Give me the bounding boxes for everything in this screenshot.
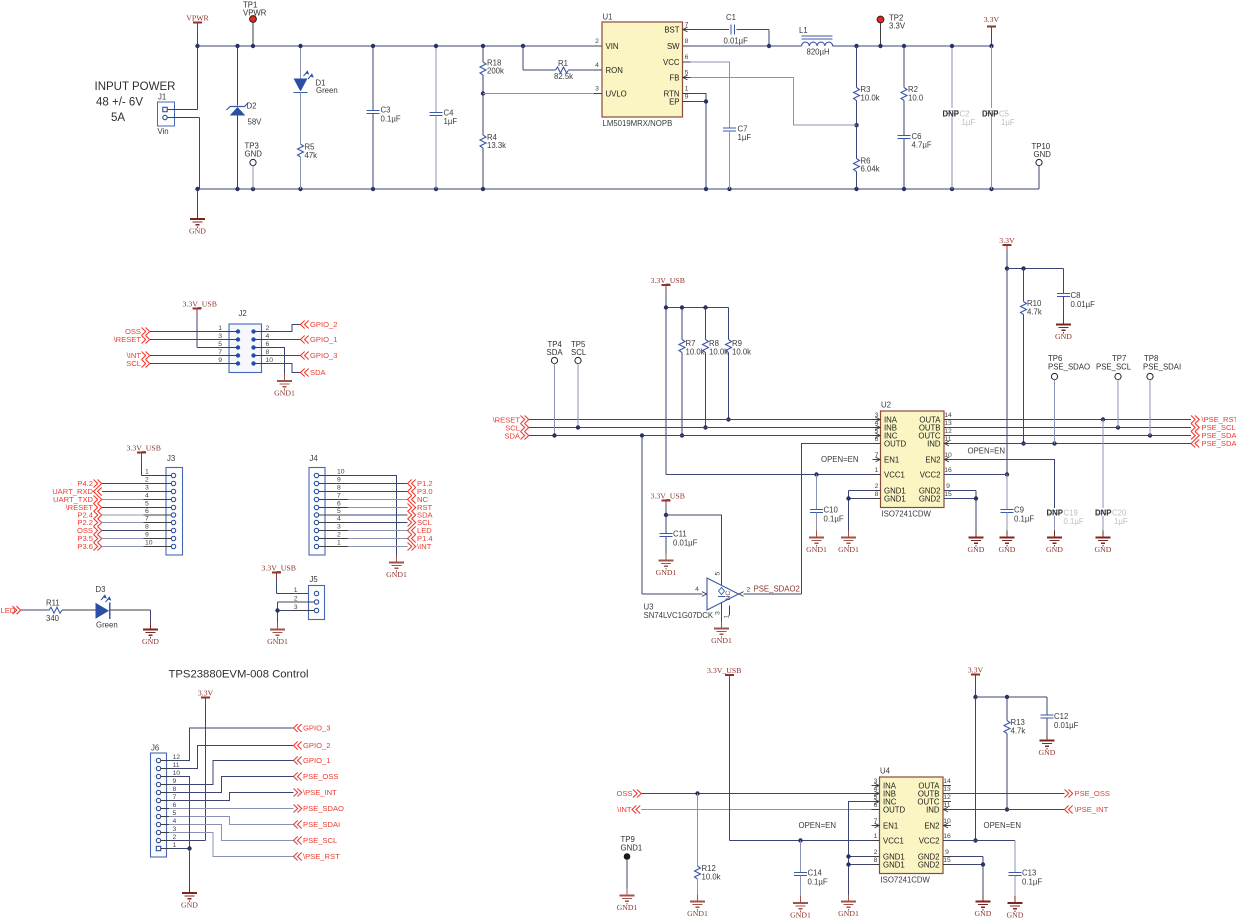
svg-text:GND: GND [975,909,992,918]
net PSE_SDAO input to IND [952,439,1236,448]
text OPEN=EN at U2 EN2 [968,447,1005,456]
LED D3 Green [96,585,118,630]
wire J6 pin8 to PSE_OSS [169,777,294,793]
svg-text:EN1: EN1 [883,821,898,830]
power flag VPWR [186,14,209,47]
wire SDA drop to U3 input [640,433,703,594]
svg-text:3.3V_USB: 3.3V_USB [651,492,685,501]
svg-text:9: 9 [218,357,222,364]
svg-text:13: 13 [944,420,952,427]
svg-text:1: 1 [294,587,298,594]
svg-text:Green: Green [96,621,118,630]
capacitor C19 DNP 0.1uF [1047,509,1084,538]
wire J6 pin11 to GPIO_2 [169,746,294,769]
net P2.4 to J3 pin6 [77,511,143,520]
svg-text:VCC: VCC [663,58,680,67]
wire U4 INC and GND1 pins to ground [846,802,871,902]
svg-text:0.1µF: 0.1µF [1064,517,1084,526]
net INT_N to J2 pin7 [127,351,215,360]
svg-text:3: 3 [173,826,177,833]
svg-text:VCC1: VCC1 [883,836,904,845]
wire J6 pin9 to GPIO_1 [169,761,294,785]
svg-text:GPIO_3: GPIO_3 [303,724,330,733]
svg-text:0.1µF: 0.1µF [1022,878,1042,887]
net LED input [1,606,50,615]
wire D3 cathode to GND [110,610,151,629]
net PSE_OSS [294,772,339,781]
svg-text:VPWR: VPWR [186,14,209,23]
svg-text:EN2: EN2 [924,821,939,830]
wire J6 pin10 to ground [169,777,190,849]
resistor R18 200k [480,44,504,94]
svg-text:15: 15 [944,491,952,498]
svg-text:OPEN=EN: OPEN=EN [821,455,858,464]
svg-text:0.1µF: 0.1µF [381,115,401,124]
text OPEN=EN at U4 EN1 [799,821,836,830]
testpoint TP4 SDA [547,340,564,438]
net RST from J4 pin6 [348,503,433,512]
svg-text:GND1: GND1 [838,909,859,918]
svg-text:15: 15 [943,857,951,864]
ground GND below C20 [1095,531,1112,555]
ground GND1 below U3 [711,622,732,646]
svg-text:5: 5 [218,341,222,348]
svg-text:D2: D2 [247,102,257,111]
svg-text:3.3V: 3.3V [984,15,1000,24]
svg-text:10: 10 [266,357,274,364]
connector J4 header 1x10 [309,454,348,555]
svg-text:9: 9 [945,849,949,856]
wire 3.3V_USB to U4 VCC1 [730,838,872,842]
svg-text:4: 4 [173,818,177,825]
svg-text:C8: C8 [1071,291,1081,300]
wire J6 pin3 to PSE_RST_N [169,833,294,857]
resistor R5 47k [298,93,318,190]
svg-text:PSE_SDAO2: PSE_SDAO2 [754,585,800,594]
svg-text:200k: 200k [487,67,504,76]
svg-text:PSE_SDAI: PSE_SDAI [303,820,340,829]
net PSE_RST_N output [952,415,1236,424]
svg-text:GND1: GND1 [621,844,643,853]
svg-text:GND1: GND1 [267,637,288,646]
svg-text:12: 12 [944,428,952,435]
ground GND1 below C11 [656,554,677,578]
ground GND1 below J5 [267,623,288,647]
capacitor C14 0.1uF [794,841,828,904]
wire J1 pin2 to GND rail [167,118,199,190]
svg-text:C10: C10 [824,506,839,515]
svg-text:7: 7 [173,794,177,801]
net PSE_SDAO [294,804,345,813]
resistor R12 10.0k [695,794,721,902]
wire J6 pin1 to ground [169,846,192,893]
capacitor C3 0.1uF [367,44,401,189]
svg-text:GPIO_1: GPIO_1 [303,756,330,765]
svg-text:PSE_SDAO: PSE_SDAO [303,804,344,813]
capacitor C6 4.7uF [898,132,932,189]
net OSS to J3 pin8 [77,526,144,535]
net LED from J4 pin3 [348,526,432,535]
wire J6 pin12 to GPIO_3 [169,728,294,761]
svg-text:EP: EP [669,97,679,106]
wire J6 pin5 to PSE_SDAI [169,817,294,825]
svg-text:2: 2 [266,325,270,332]
svg-text:0.01µF: 0.01µF [1054,721,1079,730]
power flag 3.3V_USB at J5 [262,564,315,594]
ground GND1 below J2 pin6 [274,348,295,398]
capacitor C20 DNP 1uF [1095,420,1128,538]
wire J5 pins 2 3 to GND1 [275,602,292,630]
net GPIO_3 [294,724,331,733]
svg-text:1: 1 [685,86,689,93]
svg-text:3.3V: 3.3V [999,236,1015,245]
wire FB to divider [691,78,857,126]
svg-text:PSE_OSS: PSE_OSS [303,772,338,781]
capacitor C13 0.1uF [1009,841,1043,904]
svg-text:GND1: GND1 [790,911,811,919]
svg-text:\RESET: \RESET [114,335,142,344]
svg-text:\PSE_INT: \PSE_INT [1075,805,1109,814]
svg-text:R1: R1 [558,59,568,68]
wire 3.3V to U4 VCC2 [943,695,1015,843]
ground GND below U2 right [968,531,985,555]
svg-text:\INT: \INT [417,542,432,551]
svg-text:8: 8 [874,857,878,864]
svg-text:8: 8 [145,524,149,531]
svg-text:VCC2: VCC2 [919,836,940,845]
svg-text:1µF: 1µF [1001,118,1015,127]
net INT_N from U4 [617,805,871,814]
wire U2 EN2 to C19 [952,460,1055,509]
input power annotation text [95,81,176,124]
svg-text:GPIO_2: GPIO_2 [303,741,330,750]
svg-text:GND: GND [1055,332,1072,341]
svg-text:7: 7 [145,516,149,523]
svg-text:GND1: GND1 [617,903,638,912]
svg-text:U2: U2 [881,401,891,410]
svg-text:10: 10 [145,540,153,547]
svg-text:NC: NC [725,591,732,601]
resistor R7 10.0k [679,308,705,438]
svg-text:EN2: EN2 [925,455,940,464]
testpoint TP9 GND1 [621,835,643,896]
wire VCC to C7 [691,62,730,128]
svg-text:3: 3 [294,604,298,611]
net GPIO_2 from J2 pin2 [277,320,338,331]
svg-text:GND2: GND2 [919,494,941,503]
svg-text:1µF: 1µF [1114,517,1128,526]
svg-text:1µF: 1µF [962,118,976,127]
wire J4 pin10 to GND1 [348,476,397,563]
svg-text:4.7µF: 4.7µF [912,141,932,150]
net P1.4 from J4 pin2 [348,534,433,543]
svg-text:SDA: SDA [504,432,521,441]
svg-text:6: 6 [874,802,878,809]
svg-text:BST: BST [664,25,679,34]
node FB divider [854,123,858,127]
net OSS to J2 pin1 [125,327,215,336]
svg-text:J5: J5 [310,575,319,584]
power flag 3.3V at J6 [198,689,214,841]
op-amp U2 ISO7241CDW isolator [873,401,953,519]
svg-text:P3.6: P3.6 [77,542,93,551]
testpoint TP6 PSE_SDAO [1048,354,1090,444]
svg-text:SN74LVC1G07DCK: SN74LVC1G07DCK [644,611,714,620]
svg-text:SDA: SDA [547,348,564,357]
wire 3.3V rail right [833,45,992,47]
svg-text:3.3V_USB: 3.3V_USB [707,666,741,675]
svg-text:\INT: \INT [617,805,632,814]
power flag 3.3V_USB at U3 [651,492,685,516]
wire J6 pin2 to 3.3V [169,840,206,842]
node VPWR rail junction [195,44,199,48]
svg-text:10.0k: 10.0k [686,348,705,357]
net SDA bus [504,432,872,441]
svg-text:C13: C13 [1022,869,1036,878]
wire J6 pin7 to PSE_INT_N [169,793,294,801]
wire U2 GND1 pins [846,491,872,538]
svg-text:3.3V_USB: 3.3V_USB [183,300,217,309]
net PSE_SCL output [952,423,1236,432]
svg-text:FB: FB [670,73,680,82]
svg-text:GND1: GND1 [386,570,407,579]
ground GND1 below J4 [386,556,407,580]
svg-text:2: 2 [294,596,298,603]
svg-text:14: 14 [943,778,951,785]
ground GND below C19 [1046,531,1063,555]
op-amp U1 LM5019MRX/NOPB buck regulator [594,13,691,129]
svg-text:6: 6 [875,436,879,443]
svg-text:0.01µF: 0.01µF [724,37,749,46]
svg-text:INPUT POWER: INPUT POWER [95,81,176,93]
svg-text:SCL: SCL [571,348,587,357]
svg-text:16: 16 [944,467,952,474]
svg-text:OUTD: OUTD [884,439,906,448]
connector J6 header 1x12 [151,744,181,858]
svg-text:PSE_SCL: PSE_SCL [303,836,337,845]
svg-text:GPIO_1: GPIO_1 [310,335,337,344]
svg-text:1: 1 [337,540,341,547]
svg-text:820µH: 820µH [807,48,830,57]
resistor R6 6.04k [854,125,880,189]
wire 3.3V_USB to U3 pin5 [664,513,722,585]
svg-text:TPS23880EVM-008 Control: TPS23880EVM-008 Control [169,669,309,681]
net P4.2 to J3 pin2 [77,479,143,488]
svg-text:1: 1 [875,467,879,474]
net PSE_INT_N [294,788,338,797]
svg-text:C3: C3 [381,106,391,115]
svg-text:OPEN=EN: OPEN=EN [968,447,1005,456]
svg-text:GND: GND [1095,545,1112,554]
net NC from J4 pin7 [348,495,428,504]
svg-text:340: 340 [46,614,60,623]
svg-text:3.3V: 3.3V [968,666,984,675]
net RESET_N bus [493,416,873,425]
svg-text:5: 5 [337,508,341,515]
net UART_TXD to J3 pin4 [53,495,143,504]
svg-text:GND1: GND1 [274,389,295,398]
testpoint TP8 PSE_SDAI [1143,354,1181,436]
ground GND below J6 [181,886,198,910]
svg-text:47k: 47k [305,151,318,160]
ground GND below C9 [999,531,1016,555]
text OPEN=EN at U4 EN2 [984,821,1021,830]
svg-text:C9: C9 [1014,506,1024,515]
svg-text:U1: U1 [603,13,613,22]
svg-text:58V: 58V [248,118,263,127]
svg-text:3.3V_USB: 3.3V_USB [262,564,296,573]
ground GND1 below C14 [790,896,811,919]
svg-text:9: 9 [946,483,950,490]
svg-text:C14: C14 [808,869,823,878]
net SDA from J2 pin10 [277,364,327,378]
svg-text:GND: GND [1039,748,1056,757]
svg-text:1: 1 [874,833,878,840]
wire J1 pin1 to VPWR rail [167,46,197,110]
svg-text:6: 6 [266,341,270,348]
svg-text:SCL: SCL [126,359,141,368]
svg-text:48 +/- 6V: 48 +/- 6V [96,97,143,109]
svg-text:SDA: SDA [310,368,327,377]
ground GND below C8 [1055,318,1072,342]
svg-text:J4: J4 [310,454,319,463]
svg-text:OUTD: OUTD [883,805,905,814]
svg-text:8: 8 [875,491,879,498]
net GPIO_3 from J2 pin8 [277,351,338,360]
wire 3.3V to C8 [1007,266,1064,293]
svg-text:C12: C12 [1054,712,1068,721]
net PSE_RST_N [294,852,341,861]
svg-text:5: 5 [145,501,149,508]
svg-text:GND1: GND1 [711,636,732,645]
testpoint TP3 GND [245,142,263,190]
svg-text:10: 10 [337,469,345,476]
testpoint TP10 GND [1032,142,1052,189]
svg-text:PSE_SCL: PSE_SCL [1096,363,1132,372]
testpoint TP1 VPWR [243,1,267,49]
svg-text:8: 8 [266,349,270,356]
net PSE_SDAI [294,820,341,829]
op-amp U3 SN74LVC1G07DCK buffer [644,572,800,621]
power flag 3.3V_USB pullup rail [651,276,685,475]
testpoint TP2 3.3V [877,14,906,49]
svg-text:\PSE_RST: \PSE_RST [303,852,340,861]
svg-text:0.1µF: 0.1µF [1014,515,1034,524]
svg-text:10: 10 [173,770,181,777]
svg-text:3.3V: 3.3V [889,22,906,31]
svg-text:VCC1: VCC1 [884,470,905,479]
ground GND1 below U2 left [838,531,859,555]
svg-text:J2: J2 [239,309,247,318]
svg-text:1: 1 [218,325,222,332]
svg-text:9: 9 [173,778,177,785]
svg-text:4.7k: 4.7k [1011,727,1026,736]
net GPIO_1 [294,756,331,765]
resistor R9 10.0k [726,308,752,422]
resistor R3 10.0k [854,44,880,125]
svg-text:R11: R11 [46,599,60,608]
svg-text:OPEN=EN: OPEN=EN [799,821,836,830]
svg-text:82.5k: 82.5k [554,72,573,81]
net INT from J4 pin1 [348,542,432,551]
svg-text:9: 9 [145,532,149,539]
svg-text:16: 16 [943,833,951,840]
svg-text:1: 1 [173,842,177,849]
svg-text:Green: Green [316,86,338,95]
svg-text:12: 12 [943,794,951,801]
net OSS to U4 [616,789,871,798]
svg-text:RON: RON [606,66,623,75]
wire pullup rail [664,305,729,309]
svg-text:0.01µF: 0.01µF [673,539,698,548]
svg-text:9: 9 [337,477,341,484]
svg-text:11: 11 [173,762,180,769]
svg-text:4.7k: 4.7k [1027,308,1042,317]
resistor R1 82.5k [521,44,594,81]
svg-text:GND: GND [1007,911,1024,919]
svg-text:SW: SW [667,42,680,51]
resistor R8 10.0k [703,308,729,430]
svg-text:GPIO_3: GPIO_3 [310,351,337,360]
capacitor C2 DNP 1uF [943,44,976,189]
svg-text:14: 14 [944,412,952,419]
svg-text:GND1: GND1 [883,860,905,869]
net GPIO_1 from J2 pin4 [277,335,338,344]
svg-text:7: 7 [218,349,222,356]
svg-text:ISO7241CDW: ISO7241CDW [882,510,932,519]
svg-text:2: 2 [874,849,878,856]
text OPEN=EN at U2 EN1 [821,455,858,464]
svg-text:VIN: VIN [606,42,619,51]
svg-text:1µF: 1µF [738,133,752,142]
capacitor C7 1uF [723,125,751,190]
svg-text:2: 2 [337,532,341,539]
svg-text:PSE_OSS: PSE_OSS [1075,789,1110,798]
svg-text:8: 8 [337,485,341,492]
node bottom rail junctions [195,187,993,191]
svg-text:0.1µF: 0.1µF [808,878,828,887]
net PSE_SCL [294,836,338,845]
net SCL bus [505,424,872,433]
svg-text:13.3k: 13.3k [487,141,506,150]
svg-text:GND: GND [189,227,206,236]
svg-text:GND1: GND1 [838,545,859,554]
svg-text:5: 5 [715,572,722,576]
svg-text:OPEN=EN: OPEN=EN [984,821,1021,830]
svg-text:PSE_SDAI: PSE_SDAI [1143,363,1181,372]
svg-text:3.3V_USB: 3.3V_USB [651,276,685,285]
net GPIO_2 [294,741,331,750]
svg-text:3.3V_USB: 3.3V_USB [127,444,161,453]
capacitor C1 0.01uF bootstrap [691,13,772,48]
wire U2 OUTD to U3 output [802,444,873,595]
net RESET_N to J3 pin5 [66,503,144,512]
net RESET_N to J2 pin3 [114,335,215,344]
svg-text:GND2: GND2 [918,860,940,869]
wire U3 output PSE_SDAO2 [744,593,802,595]
svg-text:2: 2 [595,38,599,45]
ground GND below J1 [189,189,206,236]
svg-text:GND: GND [1046,545,1063,554]
svg-text:LM5019MRX/NOPB: LM5019MRX/NOPB [603,119,673,128]
resistor R2 10.0 [901,44,924,136]
svg-text:8: 8 [173,786,177,793]
svg-text:5: 5 [173,810,177,817]
svg-text:1µF: 1µF [444,117,458,126]
power flag 3.3V_USB at U4 [707,666,741,841]
svg-text:IND: IND [926,805,940,814]
wire 3.3V to R13 C12 [976,695,1048,715]
